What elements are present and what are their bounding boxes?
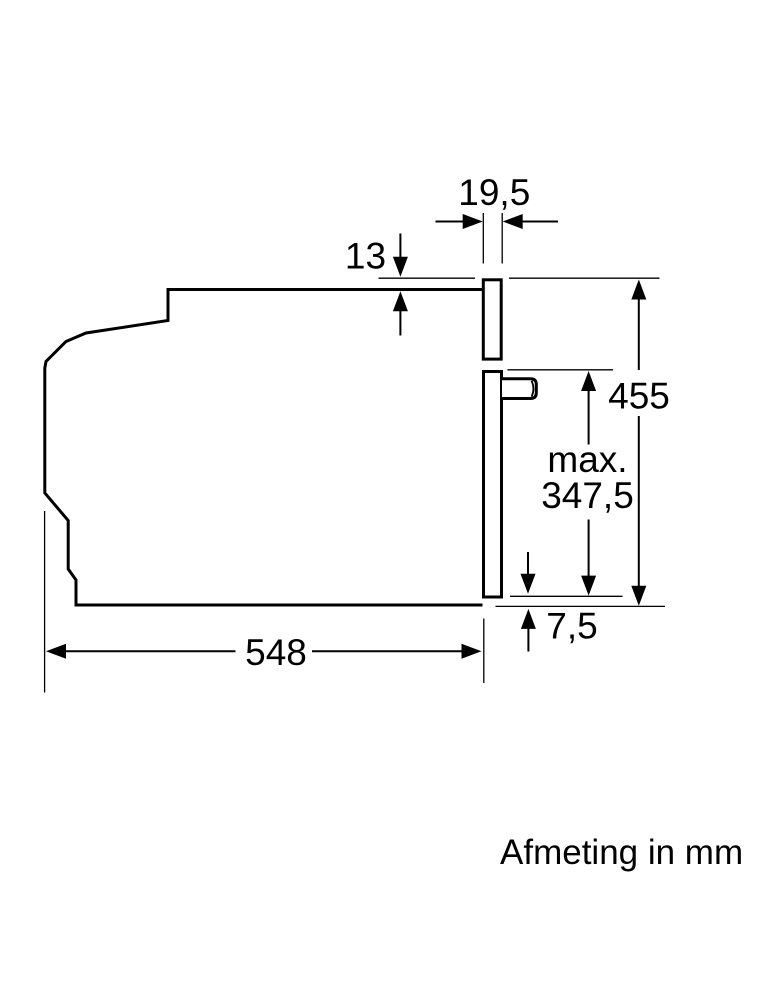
dim 19,5 left arrow [436,214,483,229]
svg-text:548: 548 [245,632,307,673]
dim 19,5 extension lines [483,213,502,264]
svg-text:Afmeting in mm: Afmeting in mm [500,833,743,872]
door lower section [484,372,502,598]
reference line at oven bottom (7,5 lower datum) [496,605,666,607]
reference line at door bottom (7,5 upper datum) [510,595,623,597]
svg-text:347,5: 347,5 [541,475,634,516]
svg-text:13: 13 [345,236,386,277]
svg-text:19,5: 19,5 [458,172,530,213]
dim 455 vertical dimension line with arrows [631,280,646,606]
front panel (door upper part) [483,280,501,359]
door handle bump [502,379,536,399]
dim 19,5 right arrow [503,214,558,229]
reference line at front panel top [379,277,660,279]
oven body outline [45,290,483,606]
handle bump inner arc [532,381,534,397]
dim 7,5 down arrow [521,552,536,594]
reference line at hinge top (347,5 upper datum) [508,369,614,371]
dim 548 dimension line with arrows [46,644,482,659]
dim 548 extension lines [45,511,484,693]
svg-text:455: 455 [608,376,670,417]
dim 7,5 up arrow [521,609,536,652]
svg-text:7,5: 7,5 [546,606,597,647]
svg-text:max.: max. [547,439,627,480]
dim 347,5 vertical dimension line with arrows [581,371,596,596]
dim 13 down arrow [393,234,408,277]
dim 13 up arrow [393,291,408,335]
